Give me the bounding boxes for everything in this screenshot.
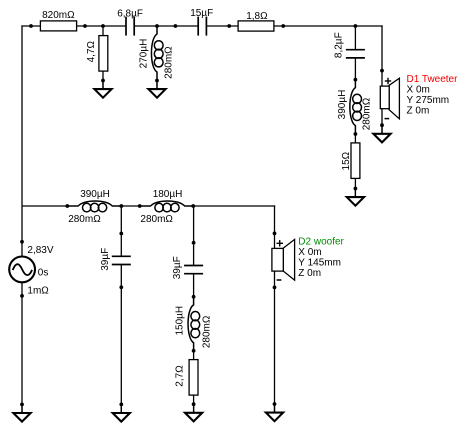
junction dot (85,26) bbox=[83, 24, 87, 28]
wire 39uF#1 branch upper bbox=[120, 206, 122, 256]
wire tweeter branch lower bbox=[381, 109, 383, 134]
inductor L4 180uH (horizontal) bbox=[140, 201, 194, 212]
svg-text:280mΩ: 280mΩ bbox=[163, 46, 174, 79]
ground (tweeter) bbox=[373, 125, 390, 142]
svg-text:X 0m: X 0m bbox=[298, 247, 321, 258]
svg-text:4,7Ω: 4,7Ω bbox=[86, 40, 97, 62]
wire 2.7-ohm to ground bbox=[193, 395, 195, 413]
inductor L2 390uH (tweeter branch) bbox=[350, 80, 362, 134]
svg-text:280mΩ: 280mΩ bbox=[361, 97, 372, 130]
wire middle rail segment 2 bbox=[121, 205, 139, 207]
junction dot (355.4,134) bbox=[354, 132, 358, 136]
wire 8.2uF to 390uH bbox=[354, 58, 356, 80]
capacitor C3 8.2uF bbox=[346, 50, 365, 58]
speaker D1 tweeter box bbox=[380, 86, 389, 109]
junction dot (355.4,79.6) bbox=[354, 78, 358, 82]
resistor R4 15 (box) bbox=[351, 143, 360, 179]
svg-text:15Ω: 15Ω bbox=[341, 151, 352, 170]
svg-text:Y 145mm: Y 145mm bbox=[298, 258, 341, 269]
resistor R1 820m (box) bbox=[40, 21, 76, 31]
junction dot (355.4,26) bbox=[354, 24, 358, 28]
wire 270uH branch to ground bbox=[156, 81, 158, 90]
capacitor C1 6.8uF bbox=[126, 17, 134, 36]
ground (15 ohm) bbox=[347, 189, 364, 206]
junction dot (157,80.5) bbox=[155, 79, 159, 83]
capacitor C5 39uF (second shunt) bbox=[184, 266, 203, 274]
junction dot (193.6,242.8) bbox=[192, 241, 196, 245]
wire tweeter branch upper bbox=[381, 25, 383, 86]
wire woofer branch lower bbox=[274, 271, 276, 413]
junction dot (121.3,287.3) bbox=[119, 285, 123, 289]
svg-text:1,8Ω: 1,8Ω bbox=[246, 11, 268, 22]
ground (2.7 ohm) bbox=[185, 404, 202, 421]
svg-text:8,2µF: 8,2µF bbox=[334, 32, 345, 58]
junction dot (193.2,206) bbox=[191, 204, 195, 208]
junction dot (22,404.4) bbox=[20, 403, 24, 407]
junction dot (103,80.5) bbox=[101, 79, 105, 83]
woofer minus mark bbox=[277, 279, 282, 281]
ground (270uH) bbox=[148, 81, 165, 98]
svg-text:150µH: 150µH bbox=[174, 306, 185, 336]
junction dot (274.5,404.0) bbox=[273, 402, 277, 406]
junction dot (355.4,188.5) bbox=[354, 187, 358, 191]
wire left vertical (top rail to source) bbox=[21, 25, 23, 257]
svg-text:390µH: 390µH bbox=[337, 90, 348, 120]
wire top rail segment 3 bbox=[206, 25, 382, 27]
inductor L3 390uH (horizontal) bbox=[67, 201, 121, 212]
svg-text:Z 0m: Z 0m bbox=[298, 268, 321, 279]
svg-text:280mΩ: 280mΩ bbox=[140, 214, 173, 225]
woofer plus mark bbox=[277, 240, 284, 246]
svg-text:D2 woofer: D2 woofer bbox=[298, 237, 344, 248]
svg-text:X 0m: X 0m bbox=[407, 84, 430, 95]
junction dot (67.3,206) bbox=[65, 204, 69, 208]
wire source bottom to ground bbox=[21, 282, 23, 413]
svg-text:1mΩ: 1mΩ bbox=[27, 286, 49, 297]
svg-text:390µH: 390µH bbox=[80, 189, 110, 200]
junction dot (193.6,350.8) bbox=[192, 349, 196, 353]
svg-text:D1 Tweeter: D1 Tweeter bbox=[407, 74, 459, 85]
resistor R3 4.7 (box) bbox=[99, 36, 108, 72]
junction dot (175.4,26) bbox=[174, 24, 178, 28]
junction dot (22,241.8) bbox=[20, 240, 24, 244]
junction dot (382,125.2) bbox=[380, 123, 384, 127]
junction dot (121.3,233.5) bbox=[119, 232, 123, 236]
ground (source) bbox=[13, 404, 30, 421]
ground (woofer) bbox=[266, 404, 283, 421]
svg-text:280mΩ: 280mΩ bbox=[201, 315, 212, 348]
svg-text:280mΩ: 280mΩ bbox=[68, 214, 101, 225]
junction dot (274.5,233.4) bbox=[273, 232, 277, 236]
junction dot (193.6,404.2) bbox=[192, 402, 196, 406]
wire 8.2uF branch upper bbox=[354, 26, 356, 50]
junction dot (193.6,296.8) bbox=[192, 295, 196, 299]
junction dot (103,26) bbox=[101, 24, 105, 28]
wire 39uF#2 branch upper bbox=[193, 206, 195, 266]
junction dot (283.2,26) bbox=[281, 24, 285, 28]
capacitor C4 39uF (first shunt) bbox=[112, 256, 131, 264]
capacitor C2 15uF bbox=[198, 17, 206, 36]
resistor R2 1.8 (box) bbox=[238, 21, 274, 31]
junction dot (382,70.6) bbox=[380, 69, 384, 73]
junction dot (274.5,287.4) bbox=[273, 286, 277, 290]
ground (39uF#1) bbox=[113, 404, 130, 421]
junction dot (31,26) bbox=[29, 24, 33, 28]
svg-text:Z 0m: Z 0m bbox=[407, 105, 430, 116]
wire top rail segment 1 bbox=[21, 25, 126, 27]
wire 4.7-ohm branch bbox=[102, 26, 104, 89]
wire 390uH to 15-ohm box bbox=[354, 134, 356, 143]
wire 15-ohm to ground bbox=[354, 178, 356, 197]
svg-text:39µF: 39µF bbox=[100, 248, 111, 271]
svg-text:2,7Ω: 2,7Ω bbox=[174, 365, 185, 387]
svg-text:180µH: 180µH bbox=[153, 189, 183, 200]
inductor L5 150uH bbox=[188, 297, 200, 351]
ground (4.7 ohm) bbox=[94, 81, 111, 98]
speaker D2 woofer cone bbox=[283, 239, 294, 280]
junction dot (229.2,26) bbox=[227, 24, 231, 28]
wire woofer branch upper bbox=[274, 205, 276, 248]
svg-text:15µF: 15µF bbox=[190, 8, 213, 19]
svg-text:2,83V: 2,83V bbox=[27, 245, 53, 256]
resistor R5 2.7 (box) bbox=[189, 360, 198, 396]
wire middle rail segment 3 bbox=[193, 205, 275, 207]
junction dot (139.7,206) bbox=[138, 204, 142, 208]
source V1 (circle) bbox=[9, 257, 35, 283]
inductor L1 270uH bbox=[151, 26, 163, 80]
svg-text:270µH: 270µH bbox=[139, 39, 150, 69]
wire 39uF#1 branch lower bbox=[120, 265, 122, 414]
svg-text:Y 275mm: Y 275mm bbox=[407, 95, 450, 106]
wire 39uF#2 to 150uH bbox=[193, 274, 195, 297]
tweeter minus mark bbox=[385, 118, 390, 120]
junction dot (121.3,404.4) bbox=[119, 403, 123, 407]
junction dot (22,295.9) bbox=[20, 294, 24, 298]
junction dot (121.3,206) bbox=[119, 204, 123, 208]
svg-text:6,8µF: 6,8µF bbox=[117, 8, 143, 19]
svg-text:39µF: 39µF bbox=[172, 256, 183, 279]
junction dot (157,26) bbox=[155, 24, 159, 28]
svg-text:820mΩ: 820mΩ bbox=[42, 10, 75, 21]
wire 150uH to 2.7-ohm box bbox=[193, 351, 195, 360]
tweeter plus mark bbox=[385, 78, 391, 84]
speaker D2 woofer box bbox=[272, 248, 283, 271]
wire top rail segment 2 bbox=[134, 25, 198, 27]
source V1 sine wave bbox=[13, 264, 32, 275]
speaker D1 tweeter cone bbox=[389, 78, 399, 119]
svg-text:0s: 0s bbox=[38, 267, 49, 278]
wire middle rail segment 1 bbox=[22, 205, 67, 207]
